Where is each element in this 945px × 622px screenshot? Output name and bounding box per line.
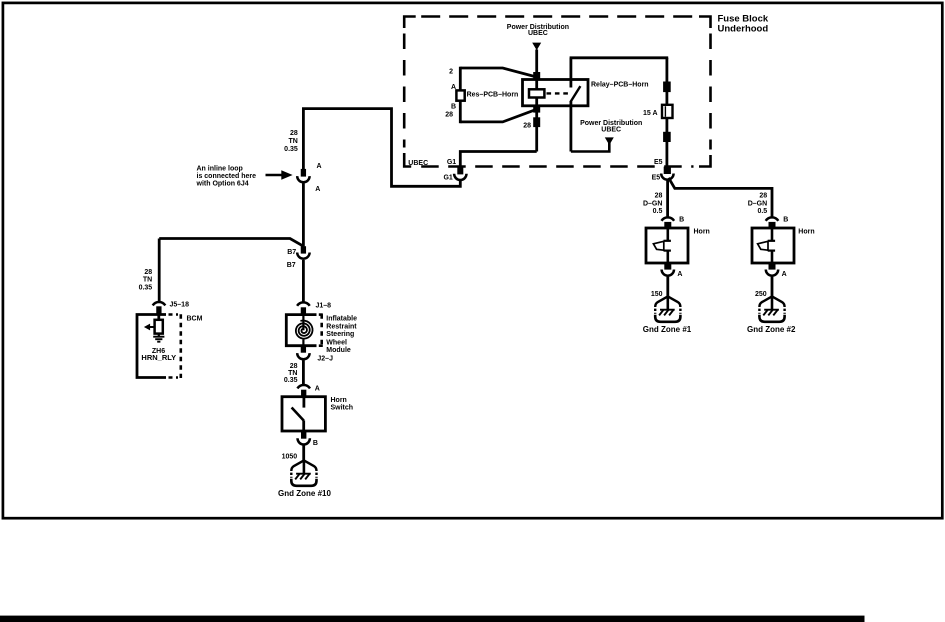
svg-text:TN: TN bbox=[288, 138, 297, 145]
svg-text:E5: E5 bbox=[652, 174, 661, 181]
svg-text:1050: 1050 bbox=[282, 454, 298, 461]
svg-text:B7: B7 bbox=[287, 262, 296, 269]
svg-text:Restraint: Restraint bbox=[326, 323, 357, 330]
svg-text:28: 28 bbox=[144, 269, 152, 276]
svg-text:Gnd Zone #2: Gnd Zone #2 bbox=[747, 325, 796, 334]
svg-text:0.5: 0.5 bbox=[653, 208, 663, 215]
svg-text:Inflatable: Inflatable bbox=[326, 315, 357, 322]
svg-text:Underhood: Underhood bbox=[718, 23, 769, 34]
svg-text:J1–8: J1–8 bbox=[316, 303, 332, 310]
svg-text:28: 28 bbox=[523, 122, 531, 129]
svg-text:150: 150 bbox=[651, 291, 663, 298]
svg-text:28: 28 bbox=[759, 193, 767, 200]
svg-text:Steering: Steering bbox=[326, 331, 354, 338]
svg-text:is connected here: is connected here bbox=[197, 173, 257, 180]
svg-text:B7: B7 bbox=[287, 249, 296, 256]
svg-text:with Option 6J4: with Option 6J4 bbox=[196, 181, 249, 188]
svg-text:B: B bbox=[313, 440, 318, 447]
svg-text:UBEC: UBEC bbox=[528, 30, 548, 37]
svg-text:UBEC: UBEC bbox=[601, 126, 621, 133]
svg-text:0.35: 0.35 bbox=[284, 146, 298, 153]
svg-text:An inline loop: An inline loop bbox=[197, 165, 243, 172]
svg-text:G1: G1 bbox=[447, 159, 456, 166]
svg-text:Relay–PCB–Horn: Relay–PCB–Horn bbox=[591, 82, 649, 89]
svg-text:UBEC: UBEC bbox=[408, 160, 428, 167]
svg-text:Wheel: Wheel bbox=[326, 339, 347, 346]
svg-text:Gnd Zone #10: Gnd Zone #10 bbox=[278, 489, 331, 498]
svg-text:0.35: 0.35 bbox=[139, 284, 153, 291]
svg-text:G1: G1 bbox=[443, 175, 452, 182]
svg-text:28: 28 bbox=[290, 363, 298, 370]
svg-text:A: A bbox=[317, 163, 322, 170]
svg-text:28: 28 bbox=[445, 112, 453, 119]
svg-text:Switch: Switch bbox=[331, 405, 354, 412]
svg-text:Gnd Zone #1: Gnd Zone #1 bbox=[643, 325, 692, 334]
svg-text:2: 2 bbox=[449, 69, 453, 76]
svg-text:B: B bbox=[783, 216, 788, 223]
svg-text:TN: TN bbox=[143, 277, 152, 284]
svg-text:B: B bbox=[679, 216, 684, 223]
svg-text:Module: Module bbox=[326, 347, 351, 354]
svg-text:0.5: 0.5 bbox=[757, 208, 767, 215]
svg-text:TN: TN bbox=[288, 370, 297, 377]
svg-text:J2–J: J2–J bbox=[317, 356, 333, 363]
svg-text:A: A bbox=[315, 385, 320, 392]
svg-text:D–GN: D–GN bbox=[748, 200, 767, 207]
svg-text:Horn: Horn bbox=[694, 228, 710, 235]
svg-text:E5: E5 bbox=[654, 159, 663, 166]
svg-text:J5–18: J5–18 bbox=[170, 302, 190, 309]
svg-text:A: A bbox=[677, 271, 682, 278]
svg-text:250: 250 bbox=[755, 291, 767, 298]
svg-text:Res–PCB–Horn: Res–PCB–Horn bbox=[467, 91, 519, 98]
svg-text:A: A bbox=[782, 271, 787, 278]
svg-text:A: A bbox=[451, 84, 456, 91]
svg-text:A: A bbox=[315, 186, 320, 193]
svg-text:HRN_RLY: HRN_RLY bbox=[141, 353, 176, 362]
svg-text:0.35: 0.35 bbox=[284, 377, 298, 384]
svg-text:BCM: BCM bbox=[187, 315, 203, 322]
svg-text:28: 28 bbox=[290, 130, 298, 137]
svg-text:15 A: 15 A bbox=[643, 110, 658, 117]
svg-text:B: B bbox=[451, 103, 456, 110]
svg-text:28: 28 bbox=[655, 193, 663, 200]
svg-text:D–GN: D–GN bbox=[643, 200, 662, 207]
svg-text:Horn: Horn bbox=[331, 397, 347, 404]
svg-text:Horn: Horn bbox=[798, 228, 814, 235]
